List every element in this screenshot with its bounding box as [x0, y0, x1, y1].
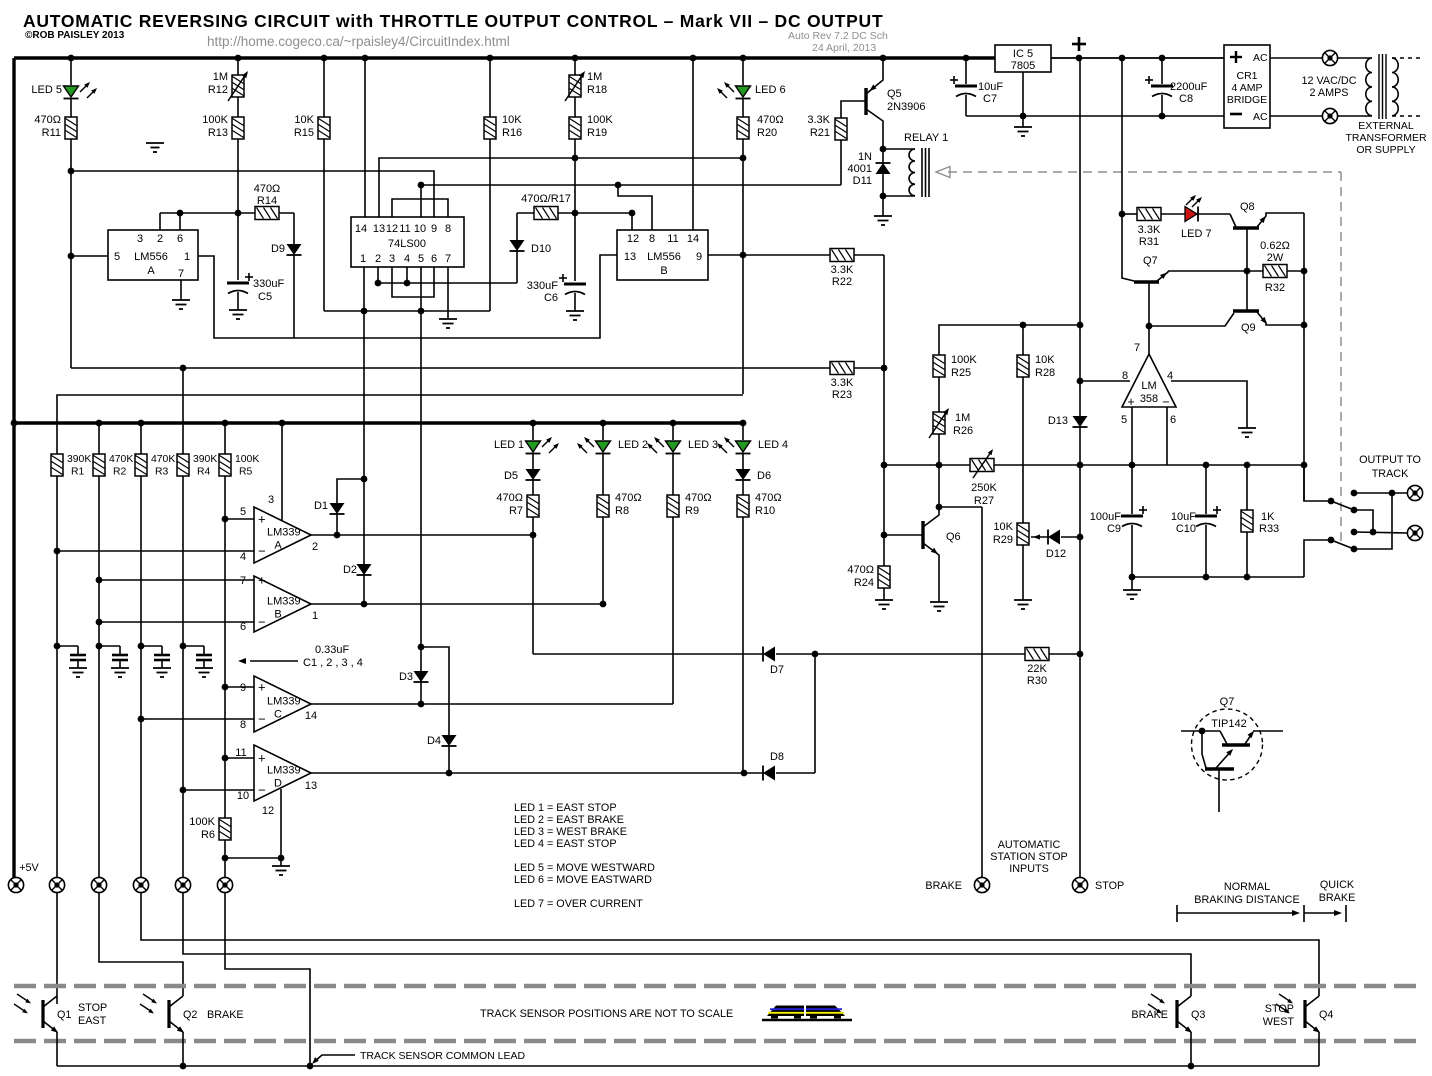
- svg-text:LED 1 = EAST STOP: LED 1 = EAST STOP: [514, 802, 617, 814]
- wire LM358 pin5 column: [1131, 407, 1133, 514]
- svg-text:7805: 7805: [1011, 60, 1035, 72]
- svg-text:9: 9: [431, 223, 437, 235]
- svg-text:1N: 1N: [858, 151, 872, 163]
- svg-text:+5V: +5V: [19, 862, 39, 874]
- diode D9: [287, 244, 302, 255]
- svg-text:LED 2 = EAST BRAKE: LED 2 = EAST BRAKE: [514, 814, 624, 826]
- svg-text:8: 8: [1122, 370, 1128, 382]
- terminal sensor x99: [91, 877, 106, 892]
- svg-text:7: 7: [178, 268, 184, 280]
- wire R5 column: [224, 423, 226, 455]
- svg-text:R25: R25: [951, 367, 971, 379]
- svg-text:2N3906: 2N3906: [887, 101, 926, 113]
- wire LM556A pin2 pin6 to R14 line: [159, 213, 161, 230]
- svg-text:BRAKE: BRAKE: [1131, 1009, 1168, 1021]
- TIP142 base lead: [1181, 730, 1202, 732]
- wire 74LS00 pin1 to y311: [363, 267, 365, 311]
- svg-text:1K: 1K: [1261, 511, 1275, 523]
- svg-text:C: C: [274, 709, 282, 721]
- svg-text:2W: 2W: [1267, 252, 1284, 264]
- svg-text:R27: R27: [974, 495, 994, 507]
- svg-text:D9: D9: [271, 243, 285, 255]
- diode D10: [510, 240, 525, 251]
- svg-text:R31: R31: [1139, 236, 1159, 248]
- ground R29: [1022, 599, 1024, 601]
- switch lower throw: [1331, 540, 1354, 549]
- TIP142 transistor 2: [1202, 731, 1206, 768]
- svg-text:©ROB PAISLEY 2013: ©ROB PAISLEY 2013: [25, 30, 125, 41]
- svg-text:358: 358: [1140, 393, 1158, 405]
- svg-text:AC: AC: [1253, 52, 1268, 64]
- svg-text:EAST: EAST: [78, 1015, 107, 1027]
- svg-text:12 VAC/DC: 12 VAC/DC: [1301, 75, 1356, 87]
- svg-text:LED 6: LED 6: [755, 84, 786, 96]
- resistor R24: [883, 565, 885, 567]
- svg-text:Q5: Q5: [887, 88, 902, 100]
- svg-text:8: 8: [240, 719, 246, 731]
- svg-text:4: 4: [240, 551, 246, 563]
- svg-text:R16: R16: [502, 127, 522, 139]
- wire LM339C pin8: [141, 718, 254, 720]
- svg-text:D4: D4: [427, 735, 441, 747]
- svg-text:1M: 1M: [213, 71, 228, 83]
- svg-text:D12: D12: [1046, 548, 1066, 560]
- wire R10 column: [742, 423, 744, 440]
- wire R26 to Q6 collector node: [938, 434, 940, 507]
- IC LM556 B box: [617, 230, 708, 280]
- wire Q6 base: [884, 534, 923, 536]
- svg-text:D7: D7: [770, 664, 784, 676]
- dashed arrow to relay: [948, 171, 1341, 173]
- svg-text:22K: 22K: [1027, 663, 1047, 675]
- terminal output track top: [1407, 485, 1422, 500]
- svg-text:Q9: Q9: [1241, 322, 1256, 334]
- svg-text:470Ω: 470Ω: [615, 492, 642, 504]
- resistor R25: [933, 355, 945, 377]
- svg-text:TRACK SENSOR POSITIONS ARE: TRACK SENSOR POSITIONS ARE NOT TO SCALE: [480, 1008, 733, 1020]
- wire LM339A pin4: [57, 550, 254, 552]
- svg-text:C10: C10: [1176, 523, 1196, 535]
- svg-text:5: 5: [240, 506, 246, 518]
- svg-text:AC: AC: [1253, 111, 1268, 123]
- resistor R32: [1263, 265, 1287, 278]
- svg-text:470Ω: 470Ω: [757, 114, 784, 126]
- LED LED 2: [596, 441, 611, 452]
- svg-text:R8: R8: [615, 505, 629, 517]
- resistor R20: [737, 117, 749, 139]
- capacitor C9: [1121, 515, 1143, 518]
- svg-text:R33: R33: [1259, 523, 1279, 535]
- resistor R6: [224, 840, 226, 877]
- terminal sensor x57: [49, 877, 64, 892]
- wire R9 to C output: [672, 517, 674, 704]
- wire R15 column: [323, 58, 325, 118]
- +5V bus comparator rail: [14, 421, 743, 424]
- resistor R21: [835, 118, 847, 140]
- svg-text:R4: R4: [197, 467, 211, 478]
- svg-text:D10: D10: [531, 243, 551, 255]
- diode D12: [1031, 536, 1048, 538]
- resistor R2: [93, 454, 105, 476]
- capacitor C3: [141, 645, 162, 647]
- wire R29 ground: [1022, 545, 1024, 600]
- svg-text:D3: D3: [399, 671, 413, 683]
- svg-text:BRAKE: BRAKE: [925, 880, 962, 892]
- wire common bottom rail: [56, 1032, 58, 1066]
- wire R21 to Q5 base: [841, 101, 866, 118]
- wire R10 to D output: [742, 517, 744, 773]
- diode D2: [363, 479, 365, 564]
- potentiometer R12: [232, 75, 244, 97]
- svg-text:R26: R26: [953, 425, 973, 437]
- wire 74LS00 pin11 pin9 bracket: [392, 199, 448, 217]
- svg-text:R13: R13: [208, 127, 228, 139]
- svg-text:R2: R2: [113, 467, 127, 478]
- terminal AC top: [1322, 50, 1337, 65]
- diode D3: [420, 311, 422, 671]
- ground C9: [1131, 589, 1133, 591]
- svg-text:9: 9: [696, 251, 702, 263]
- wire y395 line R1 to LED6 col: [57, 395, 743, 455]
- transformer: [1338, 57, 1372, 59]
- wire Q1 collector: [56, 996, 58, 1004]
- switch crossover a: [1354, 510, 1373, 532]
- capacitor C6: [564, 283, 586, 286]
- svg-text:Q4: Q4: [1319, 1009, 1333, 1021]
- svg-text:C9: C9: [1107, 523, 1121, 535]
- resistor R19: [569, 117, 581, 139]
- dimension lines braking: [1176, 905, 1178, 922]
- transistor Q7: [1134, 280, 1159, 283]
- terminal output track bottom: [1407, 525, 1422, 540]
- wire LM339D pin10: [183, 789, 254, 791]
- relay RELAY 1 coil: [883, 148, 915, 150]
- wire LM556A pin7 ground: [180, 280, 182, 300]
- svg-text:LED 3: LED 3: [688, 439, 718, 451]
- svg-text:6: 6: [177, 233, 183, 245]
- svg-text:470Ω: 470Ω: [847, 564, 874, 576]
- wire LM339A output: [311, 534, 533, 536]
- wire Q4 feed: [141, 893, 1319, 996]
- wire Q6 collector to BRAKE column: [939, 506, 982, 508]
- svg-text:Q7: Q7: [1220, 696, 1235, 708]
- wire R4 column: [182, 368, 184, 455]
- svg-text:OUTPUT TO: OUTPUT TO: [1359, 454, 1421, 466]
- wire LM556A pin5: [71, 255, 108, 257]
- svg-text:BRAKING DISTANCE: BRAKING DISTANCE: [1194, 894, 1299, 906]
- svg-text:390K: 390K: [67, 454, 91, 465]
- terminal STOP: [1072, 877, 1087, 892]
- svg-text:TIP142: TIP142: [1211, 718, 1246, 730]
- svg-text:10K: 10K: [1035, 354, 1055, 366]
- terminal +5V: [8, 877, 23, 892]
- capacitor C10: [1205, 465, 1207, 514]
- svg-text:LED 4: LED 4: [758, 439, 788, 451]
- wire 74LS00 pin10 node y185: [420, 185, 422, 217]
- svg-text:11: 11: [667, 233, 678, 245]
- diode D11 1N4001: [876, 162, 891, 164]
- svg-text:R12: R12: [208, 84, 228, 96]
- capacitor C5: [227, 282, 249, 285]
- svg-text:3: 3: [137, 233, 143, 245]
- capacitor C2: [99, 645, 120, 647]
- wire LM339C pin9: [225, 686, 254, 688]
- wire R23 line y368: [71, 367, 884, 369]
- 0V rail under 7805: [966, 115, 1224, 117]
- diode D7: [762, 647, 764, 662]
- svg-text:10: 10: [237, 790, 249, 802]
- resistor R33: [1246, 465, 1248, 510]
- svg-text:10K: 10K: [294, 114, 314, 126]
- svg-text:470Ω: 470Ω: [755, 492, 782, 504]
- switch upper contact line: [1354, 492, 1407, 494]
- svg-text:R9: R9: [685, 505, 699, 517]
- svg-text:R15: R15: [294, 127, 314, 139]
- svg-text:100K: 100K: [951, 354, 977, 366]
- wire Q3 emitter: [1190, 1032, 1192, 1066]
- svg-text:RELAY 1: RELAY 1: [904, 132, 948, 144]
- wire pin12 74LS00 from LED5 col: [71, 171, 434, 217]
- terminal sensor x225: [217, 877, 232, 892]
- wire LM556B pin8 step: [618, 185, 652, 230]
- wire R17 line: [517, 212, 632, 214]
- svg-text:2 AMPS: 2 AMPS: [1309, 87, 1348, 99]
- ground C6: [574, 302, 576, 311]
- svg-text:5: 5: [1121, 414, 1127, 426]
- resistor R3: [135, 454, 147, 476]
- svg-text:14: 14: [305, 710, 317, 722]
- switch upper throw: [1331, 501, 1354, 510]
- wire R21 bottom to y185 line: [840, 140, 842, 185]
- svg-text:LED 3 = WEST BRAKE: LED 3 = WEST BRAKE: [514, 826, 627, 838]
- svg-text:10uF: 10uF: [1171, 511, 1196, 523]
- wire R22 node column: [883, 255, 885, 566]
- svg-text:QUICK: QUICK: [1320, 879, 1355, 891]
- wire R1 column: [56, 475, 58, 885]
- svg-text:STATION STOP: STATION STOP: [990, 851, 1067, 863]
- wire 7805 ground pin: [1022, 72, 1024, 116]
- svg-text:R18: R18: [587, 84, 607, 96]
- resistor R9: [667, 495, 679, 517]
- svg-text:10uF: 10uF: [978, 81, 1003, 93]
- ground 74LS00 pin7: [447, 318, 449, 320]
- +5V bus left rail: [12, 58, 15, 885]
- svg-text:TRACK: TRACK: [1372, 468, 1409, 480]
- wire switch feeds: [1304, 465, 1331, 501]
- svg-text:6: 6: [240, 621, 246, 633]
- resistor R28: [1017, 355, 1029, 377]
- resistor R23: [830, 362, 854, 375]
- svg-text:390K: 390K: [193, 454, 217, 465]
- svg-text:R7: R7: [509, 505, 523, 517]
- ground Q6: [938, 601, 940, 603]
- wire 7805 out to bridge plus: [1051, 57, 1224, 59]
- svg-text:STOP: STOP: [1265, 1003, 1294, 1015]
- diode D1: [336, 514, 338, 535]
- svg-text:4001: 4001: [848, 163, 872, 175]
- svg-text:C7: C7: [983, 93, 997, 105]
- svg-text:12: 12: [262, 805, 274, 817]
- phototransistor Q2: [167, 1000, 170, 1028]
- wire 74LS00 pin13 line y158: [379, 158, 743, 217]
- wire R18 R19 column: [574, 58, 576, 75]
- svg-text:+: +: [258, 573, 266, 588]
- svg-text:R10: R10: [755, 505, 775, 517]
- svg-text:BRAKE: BRAKE: [1319, 892, 1356, 904]
- svg-text:C1 , 2 , 3 , 4: C1 , 2 , 3 , 4: [303, 657, 363, 669]
- LED 6: [736, 86, 751, 97]
- svg-text:13: 13: [305, 780, 317, 792]
- svg-text:11: 11: [399, 223, 410, 235]
- svg-text:−: −: [258, 615, 266, 630]
- svg-text:3.3K: 3.3K: [1138, 224, 1161, 236]
- svg-text:2200uF: 2200uF: [1170, 81, 1208, 93]
- svg-text:AUTOMATIC REVERSING CIRCUIT: AUTOMATIC REVERSING CIRCUIT with THROTTL…: [23, 11, 883, 31]
- svg-text:3: 3: [268, 494, 274, 506]
- wire 74LS00 pin3 pin6 bracket: [392, 267, 434, 297]
- op-amp LM358: [1122, 354, 1176, 407]
- svg-text:470Ω: 470Ω: [34, 114, 61, 126]
- svg-text:7: 7: [445, 253, 451, 265]
- svg-text:10K: 10K: [993, 521, 1013, 533]
- wire R25 to R26: [938, 377, 940, 412]
- svg-text:STOP: STOP: [1095, 880, 1124, 892]
- wire common feed: [225, 893, 310, 1066]
- svg-text:0.62Ω: 0.62Ω: [1260, 240, 1290, 252]
- svg-text:9: 9: [240, 682, 246, 694]
- svg-text:2: 2: [312, 541, 318, 553]
- svg-text:D: D: [274, 778, 282, 790]
- LED LED 1: [526, 441, 541, 452]
- svg-text:1: 1: [312, 610, 318, 622]
- wire R31 line: [1122, 213, 1137, 215]
- svg-text:−: −: [1162, 395, 1169, 409]
- svg-text:470Ω/R17: 470Ω/R17: [521, 193, 571, 205]
- resistor R16: [484, 117, 496, 139]
- svg-text:Auto Rev 7.2 DC Sch: Auto Rev 7.2 DC Sch: [788, 30, 888, 42]
- svg-text:C6: C6: [544, 292, 558, 304]
- resistor R15: [318, 117, 330, 139]
- IC 7805 regulator: [995, 45, 1051, 72]
- svg-text:BRAKE: BRAKE: [207, 1009, 244, 1021]
- svg-text:14: 14: [355, 223, 367, 235]
- wire R32 right to x1304: [1287, 270, 1304, 272]
- svg-text:LED 5 = MOVE WESTWARD: LED 5 = MOVE WESTWARD: [514, 862, 655, 874]
- svg-text:D2: D2: [343, 564, 357, 576]
- ground 7805: [1022, 116, 1024, 127]
- resistor R1: [51, 454, 63, 476]
- svg-text:470Ω: 470Ω: [254, 183, 281, 195]
- svg-text:D11: D11: [853, 175, 872, 187]
- wire LM339B output: [311, 603, 603, 605]
- IC 74LS00 box: [351, 217, 464, 267]
- transistor Q6: [921, 521, 924, 549]
- terminal sensor x141: [133, 877, 148, 892]
- wire C9 ground: [1131, 577, 1133, 590]
- svg-text:R20: R20: [757, 127, 777, 139]
- svg-text:R21: R21: [810, 127, 830, 139]
- svg-text:7: 7: [240, 575, 246, 587]
- svg-text:4 AMP: 4 AMP: [1232, 82, 1263, 94]
- svg-text:NORMAL: NORMAL: [1224, 881, 1270, 893]
- wire x1122 column: [1121, 58, 1123, 270]
- LED 7: [1185, 207, 1197, 222]
- svg-text:AUTOMATIC: AUTOMATIC: [998, 839, 1061, 851]
- svg-text:LM339: LM339: [267, 527, 301, 539]
- svg-text:D13: D13: [1048, 415, 1068, 427]
- svg-text:100K: 100K: [587, 114, 613, 126]
- wire D11 ground: [882, 196, 884, 216]
- svg-text:R30: R30: [1027, 675, 1047, 687]
- potentiometer R18: [569, 75, 581, 97]
- svg-text:2: 2: [375, 253, 381, 265]
- LED LED 3: [666, 441, 681, 452]
- svg-text:LED 4 = EAST STOP: LED 4 = EAST STOP: [514, 838, 617, 850]
- svg-text:D5: D5: [504, 470, 518, 482]
- svg-text:7: 7: [1134, 342, 1140, 354]
- resistor R4: [177, 454, 189, 476]
- svg-text:LM556: LM556: [134, 251, 168, 263]
- svg-text:1M: 1M: [955, 412, 970, 424]
- svg-text:10K: 10K: [502, 114, 522, 126]
- resistor R17: [534, 207, 558, 220]
- svg-text:WEST: WEST: [1263, 1016, 1295, 1028]
- svg-text:12: 12: [627, 233, 639, 245]
- svg-text:6: 6: [1170, 414, 1176, 426]
- svg-text:R1: R1: [71, 467, 85, 478]
- wire Q4 emitter: [1318, 1032, 1320, 1066]
- svg-text:R19: R19: [587, 127, 607, 139]
- svg-text:+: +: [258, 751, 266, 766]
- wire LM556B pin14 to bus: [692, 58, 694, 230]
- svg-text:STOP: STOP: [78, 1002, 107, 1014]
- wire R27 line y465: [884, 464, 970, 466]
- track dashed rail bottom: [14, 1039, 1420, 1044]
- svg-text:R24: R24: [854, 577, 874, 589]
- wire plus rail column x1080: [1079, 58, 1081, 416]
- op-amp LM339 C: [254, 676, 311, 732]
- resistor R22: [830, 249, 854, 262]
- svg-text:470Ω: 470Ω: [496, 492, 523, 504]
- wire 74LS00 pin14 to bus: [364, 58, 366, 217]
- op-amp LM339 B: [254, 576, 311, 632]
- TIP142 transistor 1: [1202, 730, 1220, 732]
- resistor R10: [737, 495, 749, 517]
- resistor R30: [1025, 648, 1049, 661]
- wire D3 to D4: [421, 647, 449, 735]
- ground R24: [883, 599, 885, 601]
- svg-text:R23: R23: [832, 389, 852, 401]
- svg-text:−: −: [258, 712, 266, 727]
- wire R7 to A output and D7 line: [532, 517, 534, 654]
- wire Q2 emitter: [182, 1032, 184, 1066]
- dashed boundary vertical: [1340, 172, 1342, 541]
- diode D6: [736, 469, 751, 480]
- transistor Q8: [1233, 226, 1259, 229]
- svg-text:A: A: [147, 265, 155, 277]
- ground LM339 pin12: [280, 858, 282, 866]
- svg-text:14: 14: [687, 233, 699, 245]
- svg-text:LED 1: LED 1: [494, 439, 524, 451]
- svg-text:LM339: LM339: [267, 696, 301, 708]
- svg-text:+: +: [1127, 395, 1134, 409]
- LED 5: [64, 86, 79, 97]
- svg-text:LED 2: LED 2: [618, 439, 648, 451]
- svg-text:EXTERNAL: EXTERNAL: [1358, 120, 1414, 132]
- capacitor C8: [1161, 58, 1163, 84]
- svg-text:CR1: CR1: [1236, 70, 1257, 82]
- svg-text:R14: R14: [257, 195, 277, 207]
